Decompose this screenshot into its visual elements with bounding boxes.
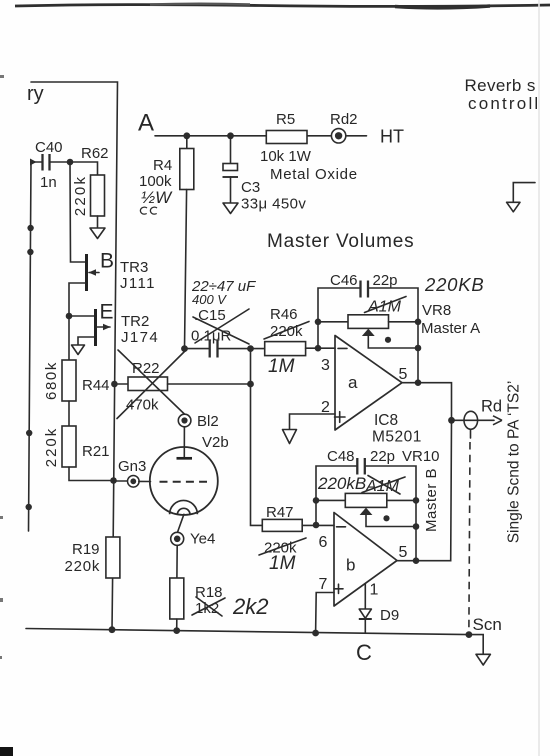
connector Rd2: [330, 111, 358, 143]
svg-text:6: 6: [319, 534, 328, 551]
svg-text:Master A: Master A: [421, 320, 480, 337]
scan artifact: bottom-left black corner: [0, 747, 13, 756]
transistor TR2 J174: [69, 301, 159, 347]
svg-text:VR10: VR10: [402, 448, 440, 465]
label Reverb s control: [465, 76, 541, 113]
svg-text:33μ 450v: 33μ 450v: [241, 196, 306, 213]
wire: op-amp b pin 7 to ground bus: [316, 593, 334, 634]
svg-text:220kB: 220kB: [317, 474, 366, 493]
svg-text:Rd: Rd: [481, 398, 502, 416]
svg-text:B: B: [100, 250, 114, 273]
svg-text:R47: R47: [266, 504, 294, 521]
resistor R46 220k->1M: [251, 306, 336, 377]
resistor R22 470k (crossed out): [114, 350, 250, 419]
svg-text:R46: R46: [270, 306, 298, 323]
svg-text:Bl2: Bl2: [197, 413, 219, 430]
svg-text:220k: 220k: [65, 558, 101, 575]
resistor R62: [70, 145, 109, 228]
connector Scn with ground: [469, 615, 502, 665]
svg-text:b: b: [346, 556, 355, 575]
svg-text:V2b: V2b: [202, 434, 229, 451]
svg-text:C40: C40: [35, 139, 63, 156]
node: junction R22 right: [247, 381, 254, 388]
svg-text:J111: J111: [120, 275, 156, 292]
potentiometer VR10 Master B: [316, 468, 440, 532]
node: junctions feedback B right: [413, 497, 420, 564]
node: junction rail/R4: [183, 132, 190, 139]
svg-text:1: 1: [370, 582, 379, 599]
svg-text:Master B: Master B: [423, 468, 440, 532]
scan artifact: top edge line: [15, 4, 550, 8]
svg-text:D9: D9: [380, 607, 399, 624]
wire: bottom ground bus: [26, 629, 469, 635]
svg-text:220k: 220k: [72, 175, 89, 216]
node: junction rail/C3: [227, 132, 234, 139]
svg-text:A: A: [138, 110, 154, 137]
svg-text:Reverb s: Reverb s: [465, 76, 536, 95]
resistor R47 220k->1M: [259, 504, 334, 574]
svg-text:E: E: [100, 301, 114, 324]
svg-text:Single Scnd to PA ‘TS2’: Single Scnd to PA ‘TS2’: [506, 381, 523, 544]
svg-text:ry: ry: [27, 83, 44, 105]
svg-text:VR8: VR8: [422, 302, 451, 319]
svg-text:1M: 1M: [268, 356, 295, 377]
svg-text:220KB: 220KB: [424, 274, 485, 295]
node: junctions on bottom bus: [109, 626, 473, 638]
svg-text:R4: R4: [153, 157, 172, 174]
capacitor C46 22p: [318, 272, 418, 383]
ground under TR2: [72, 345, 85, 355]
capacitor C40: [30, 139, 70, 191]
capacitor C3 33u 450v: [223, 136, 307, 213]
svg-text:680k: 680k: [43, 361, 60, 400]
wire: vertical feed to R47: [251, 349, 263, 526]
node: junction C40/R62/TR3: [67, 159, 74, 166]
svg-text:5: 5: [399, 366, 408, 383]
svg-text:C: C: [356, 640, 372, 665]
resistor R19: [65, 537, 120, 578]
scan artifact: page right edge shadow: [538, 0, 540, 756]
svg-text:C48: C48: [327, 448, 355, 465]
svg-text:R5: R5: [276, 111, 295, 128]
note 22-47uF 400V (handwritten): [191, 278, 256, 307]
svg-text:C46: C46: [330, 272, 358, 289]
svg-text:controll: controll: [468, 94, 540, 113]
svg-text:Rd2: Rd2: [330, 111, 358, 128]
node: junctions feedback A right: [415, 319, 422, 387]
wire: op-amp a output to Rd node: [402, 383, 452, 421]
svg-text:R62: R62: [81, 145, 109, 162]
ground under C3: [223, 203, 238, 214]
node: junction TR3 source / TR2: [66, 313, 73, 320]
tube V2b triode: [150, 427, 229, 533]
terminal Bl2: [178, 413, 218, 430]
svg-text:5: 5: [399, 544, 408, 561]
svg-text:R44: R44: [82, 377, 110, 394]
ground at op-amp a pin 2: [283, 414, 336, 444]
node: junction bus/R22: [111, 381, 118, 388]
svg-text:M5201: M5201: [372, 429, 422, 446]
wire: Rd node down to op-amp b output: [416, 420, 452, 560]
resistor R21: [43, 401, 114, 481]
node: junctions feedback B left: [313, 497, 320, 528]
resistor R44: [43, 316, 110, 401]
op-amp U1b: [319, 513, 417, 607]
terminal Ye4: [171, 531, 216, 548]
svg-text:R19: R19: [72, 541, 100, 558]
svg-text:HT: HT: [380, 127, 404, 147]
node: junction R4/C15/anode: [181, 345, 188, 352]
svg-text:1M: 1M: [269, 553, 296, 574]
capacitor C15 0.1uR (crossed out): [185, 307, 251, 358]
op-amp U1a IC8 M5201: [321, 336, 422, 446]
capacitor C48 22p: [316, 448, 440, 561]
svg-text:Gn3: Gn3: [118, 458, 146, 475]
svg-text:22p: 22p: [370, 448, 395, 465]
diode D9: [359, 584, 399, 633]
svg-text:TR3: TR3: [120, 259, 148, 276]
svg-text:Metal Oxide: Metal Oxide: [270, 166, 358, 183]
wire: HT rail: [155, 135, 367, 137]
svg-text:J174: J174: [121, 329, 159, 346]
svg-text:3: 3: [321, 357, 330, 374]
connector Rd output jack: [448, 398, 502, 629]
svg-text:400 V: 400 V: [192, 292, 227, 307]
svg-text:C3: C3: [241, 179, 260, 196]
svg-text:2k2: 2k2: [232, 594, 268, 619]
resistor R4 100k 1/2W: [139, 136, 194, 349]
resistor R18 1k2 (crossed) 2k2: [170, 545, 269, 630]
terminal Gn3: [114, 458, 151, 487]
node: junction bus/R21/Gn3: [110, 477, 117, 484]
svg-text:TR2: TR2: [121, 313, 149, 330]
note 220kB A1M (crossed, handwritten): [317, 474, 405, 495]
potentiometer VR8 A1M (crossed) Master A: [318, 297, 480, 349]
resistor R5 10k 1W Metal Oxide: [260, 111, 358, 183]
svg-text:22p: 22p: [373, 272, 398, 289]
ground under R62: [90, 228, 105, 239]
node: junction C15/R46/feed: [247, 345, 254, 352]
svg-text:220k: 220k: [43, 427, 60, 468]
svg-text:1n: 1n: [40, 174, 57, 191]
transistor TR3 J111: [69, 162, 156, 316]
svg-text:Scn: Scn: [473, 615, 502, 634]
svg-text:R21: R21: [82, 443, 110, 460]
wire: top-left box outline and main vertical bus: [31, 82, 118, 630]
wire: left vertical bus (cut off circuit): [29, 162, 32, 531]
node: dots on left bus: [26, 225, 34, 510]
svg-text:Ye4: Ye4: [190, 531, 215, 548]
ground top right: [507, 183, 535, 212]
svg-text:.C15: .C15: [194, 307, 226, 324]
svg-text:½W: ½W: [141, 188, 173, 207]
svg-text:10k 1W: 10k 1W: [260, 148, 312, 165]
node: junctions feedback A left: [315, 319, 322, 352]
svg-text:IC8: IC8: [374, 412, 398, 429]
svg-text:Master Volumes: Master Volumes: [267, 231, 414, 252]
scan artifact: left edge marks: [0, 75, 4, 659]
svg-text:a: a: [348, 373, 358, 392]
svg-text:7: 7: [319, 576, 328, 593]
